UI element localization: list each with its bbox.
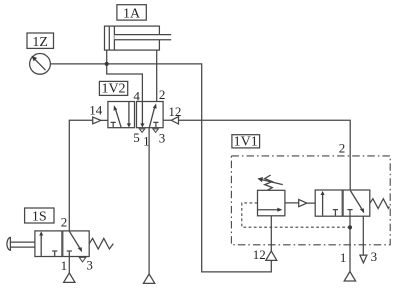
svg-text:5: 5 — [133, 130, 140, 145]
svg-text:3: 3 — [371, 249, 378, 264]
svg-text:12: 12 — [253, 247, 266, 262]
svg-text:2: 2 — [339, 141, 346, 156]
svg-text:2: 2 — [61, 215, 68, 230]
svg-text:1: 1 — [61, 258, 68, 273]
svg-text:3: 3 — [86, 257, 93, 272]
svg-text:1: 1 — [143, 133, 150, 148]
svg-text:2: 2 — [159, 87, 166, 102]
svg-text:12: 12 — [168, 104, 181, 119]
svg-text:3: 3 — [159, 131, 166, 146]
svg-text:1V1: 1V1 — [234, 134, 258, 149]
svg-text:1S: 1S — [32, 210, 47, 225]
svg-text:1: 1 — [340, 250, 347, 265]
svg-text:1V2: 1V2 — [101, 82, 125, 97]
svg-text:1Z: 1Z — [32, 35, 48, 50]
svg-text:1A: 1A — [123, 7, 141, 22]
svg-text:14: 14 — [89, 102, 103, 117]
svg-text:4: 4 — [133, 89, 140, 104]
